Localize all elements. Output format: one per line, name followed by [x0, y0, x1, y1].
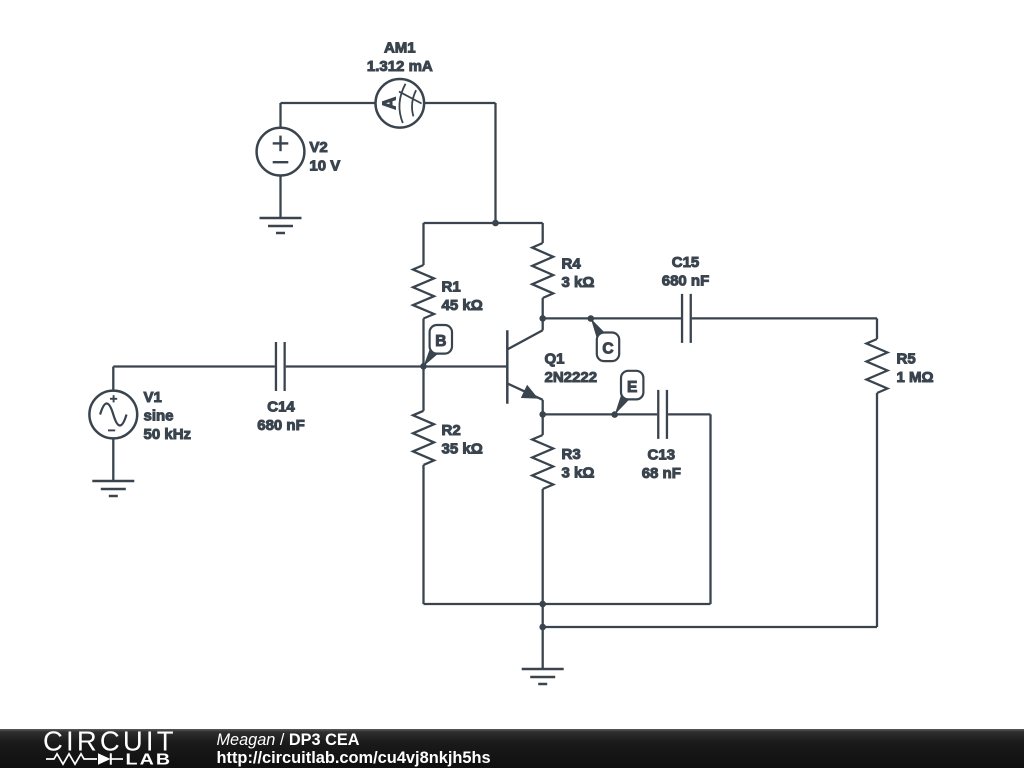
svg-text:Q1: Q1 [545, 351, 565, 368]
svg-text:http://circuitlab.com/cu4vj8nk: http://circuitlab.com/cu4vj8nkjh5hs [217, 749, 491, 767]
svg-text:R2: R2 [442, 422, 461, 439]
svg-text:45 kΩ: 45 kΩ [442, 297, 483, 314]
svg-text:C14: C14 [267, 398, 295, 415]
svg-text:3 kΩ: 3 kΩ [562, 464, 595, 481]
svg-text:Meagan / DP3 CEA: Meagan / DP3 CEA [217, 731, 360, 749]
svg-text:E: E [627, 379, 637, 396]
svg-text:R5: R5 [897, 351, 916, 368]
svg-text:LAB: LAB [126, 750, 173, 767]
svg-text:C15: C15 [672, 254, 700, 271]
svg-text:3 kΩ: 3 kΩ [562, 274, 595, 291]
svg-text:1 MΩ: 1 MΩ [897, 369, 934, 386]
svg-text:V1: V1 [144, 389, 162, 406]
svg-text:10 V: 10 V [309, 157, 340, 174]
svg-text:A: A [379, 97, 399, 110]
svg-text:35 kΩ: 35 kΩ [442, 440, 483, 457]
svg-text:50 kHz: 50 kHz [144, 426, 192, 443]
svg-text:680 nF: 680 nF [257, 417, 305, 434]
svg-text:sine: sine [144, 408, 174, 425]
svg-text:C: C [602, 341, 613, 358]
svg-text:B: B [435, 333, 446, 350]
svg-text:C13: C13 [648, 447, 676, 464]
svg-text:680 nF: 680 nF [662, 272, 710, 289]
svg-text:V2: V2 [309, 139, 327, 156]
svg-text:R3: R3 [562, 446, 581, 463]
svg-text:R1: R1 [442, 279, 461, 296]
svg-text:2N2222: 2N2222 [545, 369, 598, 386]
svg-text:68 nF: 68 nF [642, 465, 681, 482]
svg-text:R4: R4 [562, 255, 582, 272]
svg-text:AM1: AM1 [384, 40, 416, 57]
svg-text:1.312 mA: 1.312 mA [367, 58, 433, 75]
